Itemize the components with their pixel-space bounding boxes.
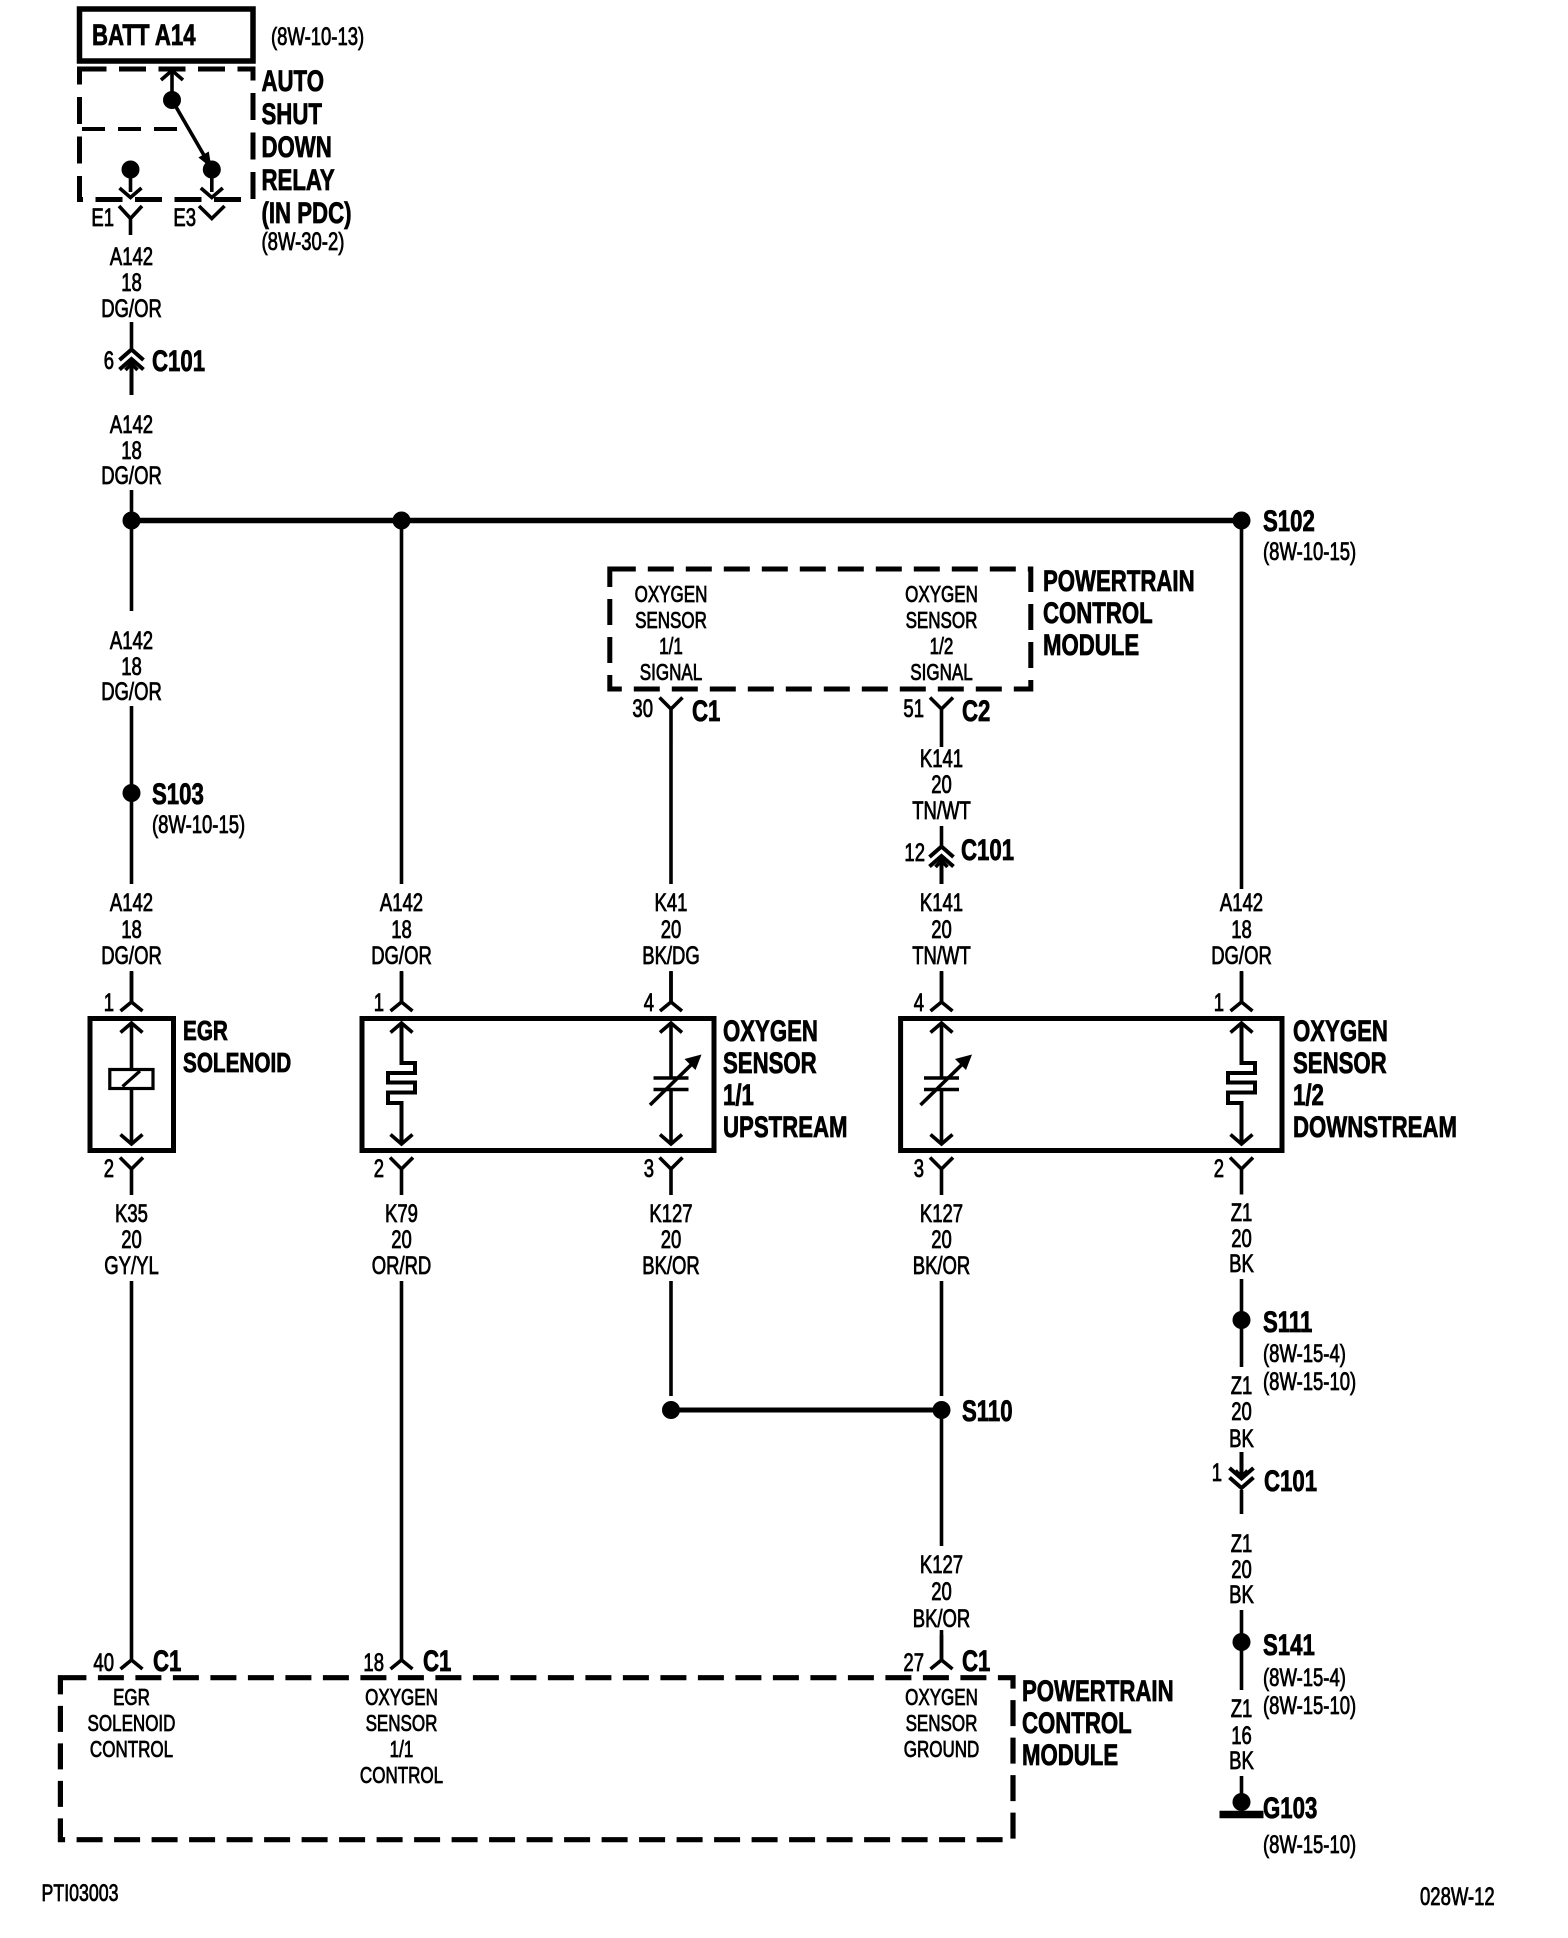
- svg-text:A142: A142: [380, 888, 423, 916]
- svg-text:K127: K127: [920, 1199, 963, 1227]
- connector E3 (female): [199, 206, 225, 219]
- relay E3 lead: [210, 170, 214, 193]
- svg-text:BK/OR: BK/OR: [642, 1251, 700, 1279]
- svg-text:DOWN: DOWN: [262, 130, 332, 164]
- svg-text:1/1: 1/1: [723, 1078, 754, 1112]
- splice S110 tie wire: [671, 1408, 942, 1413]
- svg-text:2: 2: [1214, 1154, 1224, 1182]
- svg-text:40: 40: [93, 1648, 114, 1676]
- svg-text:A142: A142: [110, 888, 153, 916]
- wire Z1 to C101: [1240, 1452, 1244, 1462]
- connector pin 2 EGR solenoid: [120, 1158, 143, 1196]
- svg-text:20: 20: [391, 1225, 412, 1253]
- powertrain control module (upper, dashed box): [610, 569, 1031, 689]
- svg-text:AUTO: AUTO: [262, 64, 324, 98]
- svg-text:(8W-15-10): (8W-15-10): [1263, 1830, 1356, 1858]
- svg-text:1/1: 1/1: [390, 1738, 414, 1763]
- wire to pin 4 O2 sensor 1/1: [669, 971, 673, 1002]
- svg-text:DG/OR: DG/OR: [1211, 941, 1272, 969]
- svg-text:(8W-10-15): (8W-10-15): [1263, 537, 1356, 565]
- wire to pin 1 O2 sensor 1/2: [1240, 971, 1244, 1002]
- relay E1 arrow: [120, 188, 142, 198]
- relay E1 lead: [129, 170, 133, 193]
- svg-text:C101: C101: [1264, 1464, 1317, 1498]
- connector pin 51 C2: [930, 698, 953, 741]
- svg-text:BK/OR: BK/OR: [913, 1251, 971, 1279]
- svg-text:BK/DG: BK/DG: [642, 941, 700, 969]
- svg-text:SENSOR: SENSOR: [723, 1046, 817, 1080]
- svg-text:OXYGEN: OXYGEN: [635, 583, 708, 608]
- svg-text:Z1: Z1: [1231, 1198, 1253, 1226]
- svg-text:51: 51: [903, 694, 924, 722]
- svg-text:(8W-15-4): (8W-15-4): [1263, 1339, 1346, 1367]
- solenoid coil symbol: [110, 1070, 153, 1089]
- svg-text:BK/OR: BK/OR: [913, 1604, 971, 1632]
- svg-text:20: 20: [931, 915, 952, 943]
- svg-text:E3: E3: [173, 203, 196, 231]
- wire A142 to splice bus: [130, 490, 134, 516]
- ground G103 terminal: [1233, 1793, 1251, 1811]
- svg-text:4: 4: [914, 988, 924, 1016]
- svg-text:20: 20: [661, 1225, 682, 1253]
- svg-text:SHUT: SHUT: [262, 97, 322, 131]
- svg-text:K35: K35: [115, 1199, 148, 1227]
- wire to pin 1: [130, 971, 134, 1002]
- svg-text:18: 18: [121, 268, 142, 296]
- connector pin 1 EGR solenoid: [121, 972, 143, 1011]
- svg-text:1/2: 1/2: [930, 635, 954, 660]
- svg-text:DG/OR: DG/OR: [101, 461, 162, 489]
- svg-text:C1: C1: [692, 694, 720, 728]
- svg-text:S141: S141: [1263, 1628, 1315, 1662]
- svg-text:20: 20: [931, 1577, 952, 1605]
- svg-text:A142: A142: [110, 242, 153, 270]
- svg-text:SOLENOID: SOLENOID: [183, 1048, 291, 1079]
- svg-text:C1: C1: [962, 1644, 990, 1678]
- connector E1 (female): [119, 206, 142, 235]
- svg-text:(IN PDC): (IN PDC): [262, 196, 352, 230]
- relay K: auto shut down relay dashed box: [80, 69, 254, 200]
- junction col1: [123, 512, 141, 530]
- svg-text:POWERTRAIN: POWERTRAIN: [1022, 1674, 1174, 1708]
- EGR internal arrow out: [121, 1135, 143, 1145]
- in-line connector C101 pin 1: [1230, 1452, 1254, 1488]
- relay contact E3: [203, 161, 221, 179]
- svg-text:PTI03003: PTI03003: [42, 1881, 119, 1907]
- svg-text:C101: C101: [961, 833, 1014, 867]
- svg-text:S111: S111: [1263, 1305, 1312, 1339]
- O2 1/1 sense arrow out: [660, 1135, 682, 1145]
- relay contact E1: [122, 161, 140, 179]
- svg-text:18: 18: [121, 915, 142, 943]
- svg-text:A142: A142: [1220, 888, 1263, 916]
- wire Z1 to ground: [1240, 1776, 1244, 1797]
- relay coil divider (dashed): [82, 127, 186, 131]
- svg-text:(8W-10-15): (8W-10-15): [152, 810, 245, 838]
- svg-text:S110: S110: [962, 1394, 1013, 1428]
- svg-text:SIGNAL: SIGNAL: [640, 661, 702, 686]
- svg-text:EGR: EGR: [113, 1686, 150, 1711]
- connector pin 1 O2 sensor 1/2: [1231, 972, 1253, 1011]
- fuse feed box BATT A14: [80, 9, 254, 61]
- wire K127 to S110: [669, 1281, 673, 1396]
- wire A142 to S103: [130, 706, 134, 786]
- relay common wire: [170, 71, 174, 101]
- svg-text:1: 1: [104, 988, 114, 1016]
- svg-text:(8W-15-10): (8W-15-10): [1263, 1367, 1356, 1395]
- svg-text:1: 1: [1212, 1458, 1222, 1486]
- oxygen sensor 1/2 box: [901, 1019, 1282, 1151]
- relay movable contact arm: [172, 100, 205, 157]
- junction col2: [393, 512, 411, 530]
- O2 1/1 heater arrow in: [391, 1023, 413, 1033]
- sense element plates O2 1/2: [924, 1023, 959, 1144]
- EGR solenoid box: [90, 1019, 174, 1151]
- bus wire A142 (horizontal): [132, 518, 1242, 524]
- relay pin 30 arrow (to BATT): [161, 71, 183, 81]
- svg-text:K41: K41: [655, 888, 688, 916]
- svg-text:K141: K141: [920, 888, 963, 916]
- svg-text:DG/OR: DG/OR: [371, 941, 432, 969]
- wire A142 below bus: [130, 525, 134, 611]
- wire A142 to C101: [130, 322, 134, 349]
- svg-text:27: 27: [903, 1648, 924, 1676]
- O2 1/2 sense arrow in: [931, 1023, 953, 1033]
- svg-text:K79: K79: [385, 1199, 418, 1227]
- connector pin 3 O2 sensor 1/2: [930, 1158, 953, 1196]
- svg-text:20: 20: [121, 1225, 142, 1253]
- svg-text:20: 20: [1231, 1397, 1252, 1425]
- wire to pin 1 O2 sensor 1/1: [400, 971, 404, 1002]
- wire K41: [669, 740, 673, 884]
- svg-text:C101: C101: [152, 344, 205, 378]
- wire K127 to S110: [940, 1281, 944, 1396]
- svg-text:S103: S103: [152, 777, 204, 811]
- wire K79 to PCM: [400, 1281, 404, 1630]
- splice S102: [1233, 512, 1251, 530]
- svg-text:TN/WT: TN/WT: [912, 941, 971, 969]
- svg-text:12: 12: [904, 838, 925, 866]
- svg-text:UPSTREAM: UPSTREAM: [723, 1110, 848, 1144]
- svg-text:GROUND: GROUND: [904, 1738, 980, 1763]
- svg-text:CONTROL: CONTROL: [1043, 596, 1153, 630]
- svg-text:C2: C2: [962, 694, 990, 728]
- svg-text:3: 3: [914, 1154, 924, 1182]
- relay common contact: [163, 91, 181, 109]
- svg-text:BATT A14: BATT A14: [92, 18, 196, 52]
- svg-text:CONTROL: CONTROL: [1022, 1706, 1132, 1740]
- svg-text:RELAY: RELAY: [262, 163, 336, 197]
- svg-text:Z1: Z1: [1231, 1371, 1253, 1399]
- variable arrow O2 1/2: [921, 1063, 964, 1105]
- svg-text:SENSOR: SENSOR: [1293, 1046, 1387, 1080]
- variable arrow: [650, 1063, 693, 1105]
- wire K141 to C101: [940, 826, 944, 846]
- svg-text:K127: K127: [920, 1550, 963, 1578]
- svg-text:DG/OR: DG/OR: [101, 294, 162, 322]
- O2 1/1 sense arrow in: [660, 1023, 682, 1033]
- svg-text:SIGNAL: SIGNAL: [910, 661, 972, 686]
- svg-text:A142: A142: [110, 626, 153, 654]
- svg-text:CONTROL: CONTROL: [90, 1738, 173, 1763]
- svg-text:1/1: 1/1: [659, 635, 683, 660]
- svg-text:4: 4: [644, 988, 654, 1016]
- svg-text:DG/OR: DG/OR: [101, 677, 162, 705]
- connector pin 4 O2 sensor 1/1: [660, 972, 682, 1011]
- powertrain control module (lower, dashed box): [60, 1678, 1013, 1840]
- connector pin 4 O2 sensor 1/2: [931, 972, 953, 1011]
- EGR internal arrow in: [121, 1023, 143, 1033]
- svg-text:K141: K141: [920, 744, 963, 772]
- wire Z1 to S141: [1240, 1610, 1244, 1636]
- svg-text:A142: A142: [110, 410, 153, 438]
- svg-text:OXYGEN: OXYGEN: [905, 583, 978, 608]
- connector pin 2 O2 sensor 1/2: [1230, 1158, 1253, 1195]
- svg-text:30: 30: [632, 694, 653, 722]
- svg-text:SENSOR: SENSOR: [366, 1712, 438, 1737]
- wire Z1 below S111: [1240, 1327, 1244, 1367]
- svg-text:(8W-10-13): (8W-10-13): [271, 22, 364, 50]
- heater element (resistor) O2 1/2: [1228, 1023, 1255, 1144]
- svg-text:K127: K127: [649, 1199, 692, 1227]
- connector pin 2 O2 sensor 1/1: [390, 1158, 413, 1196]
- svg-text:TN/WT: TN/WT: [912, 796, 971, 824]
- svg-text:S102: S102: [1263, 504, 1315, 538]
- svg-text:2: 2: [104, 1154, 114, 1182]
- sense element plates: [654, 1023, 689, 1144]
- svg-text:3: 3: [644, 1154, 654, 1182]
- connector pin 18 C1: [391, 1630, 413, 1669]
- connector pin 1 O2 sensor 1/1: [391, 972, 413, 1011]
- splice S110: [933, 1401, 951, 1419]
- wire A142 to EGR solenoid: [130, 800, 134, 884]
- svg-text:BK: BK: [1229, 1580, 1254, 1608]
- svg-text:EGR: EGR: [183, 1016, 228, 1047]
- in-line connector C101 pin 12: [930, 847, 954, 885]
- heater element (resistor) O2 1/1: [388, 1023, 415, 1144]
- wire K127 below S110: [940, 1417, 944, 1546]
- wire A142 col5 from S102: [1240, 525, 1244, 889]
- svg-text:18: 18: [1231, 915, 1252, 943]
- svg-text:Z1: Z1: [1231, 1694, 1253, 1722]
- svg-text:18: 18: [391, 915, 412, 943]
- svg-text:2: 2: [374, 1154, 384, 1182]
- svg-text:C1: C1: [423, 1644, 451, 1678]
- wire Z1 below S141: [1240, 1649, 1244, 1690]
- wire Z1 to S111: [1240, 1279, 1244, 1313]
- svg-text:OR/RD: OR/RD: [372, 1251, 432, 1279]
- ground G103 symbol: [1220, 1811, 1264, 1819]
- wire K141 upper: [940, 740, 944, 747]
- wire to pin 4 O2 sensor 1/2: [940, 971, 944, 1002]
- relay E3 arrow: [201, 188, 223, 198]
- svg-text:BK: BK: [1229, 1424, 1254, 1452]
- svg-text:028W-12: 028W-12: [1420, 1882, 1495, 1910]
- connector pin 30 C1: [660, 698, 683, 741]
- svg-text:CONTROL: CONTROL: [360, 1764, 443, 1789]
- svg-text:E1: E1: [91, 203, 114, 231]
- svg-text:MODULE: MODULE: [1022, 1738, 1118, 1772]
- svg-text:SENSOR: SENSOR: [635, 609, 707, 634]
- connector pin 27 C1: [931, 1630, 953, 1669]
- svg-text:OXYGEN: OXYGEN: [905, 1686, 978, 1711]
- connector pin 3 O2 sensor 1/1: [660, 1158, 683, 1196]
- EGR internal wire upper: [130, 1023, 134, 1070]
- wire A142 col2: [400, 525, 404, 884]
- svg-text:(8W-30-2): (8W-30-2): [262, 227, 345, 255]
- splice S111: [1233, 1311, 1251, 1329]
- svg-text:OXYGEN: OXYGEN: [1293, 1014, 1388, 1048]
- svg-text:1/2: 1/2: [1293, 1078, 1324, 1112]
- oxygen sensor 1/1 box: [362, 1019, 714, 1151]
- wire K35 to PCM: [130, 1281, 134, 1630]
- svg-text:SOLENOID: SOLENOID: [88, 1712, 176, 1737]
- svg-text:(8W-15-4): (8W-15-4): [1263, 1663, 1346, 1691]
- svg-text:OXYGEN: OXYGEN: [723, 1014, 818, 1048]
- svg-text:1: 1: [1214, 988, 1224, 1016]
- junction at S110 (left): [662, 1401, 680, 1419]
- svg-text:SENSOR: SENSOR: [906, 1712, 978, 1737]
- O2 1/2 heater arrow out: [1231, 1135, 1253, 1145]
- in-line connector C101 pin 6: [120, 350, 144, 396]
- O2 1/2 heater arrow in: [1231, 1023, 1253, 1033]
- svg-text:POWERTRAIN: POWERTRAIN: [1043, 564, 1195, 598]
- splice S103: [123, 784, 141, 802]
- svg-text:OXYGEN: OXYGEN: [365, 1686, 438, 1711]
- svg-text:G103: G103: [1263, 1791, 1317, 1825]
- svg-text:BK: BK: [1229, 1249, 1254, 1277]
- svg-text:C1: C1: [153, 1644, 181, 1678]
- svg-text:BK: BK: [1229, 1746, 1254, 1774]
- O2 1/1 heater arrow out: [391, 1135, 413, 1145]
- svg-text:20: 20: [931, 770, 952, 798]
- svg-text:18: 18: [363, 1648, 384, 1676]
- svg-text:GY/YL: GY/YL: [104, 1251, 158, 1279]
- svg-text:(8W-15-10): (8W-15-10): [1263, 1691, 1356, 1719]
- svg-text:DOWNSTREAM: DOWNSTREAM: [1293, 1110, 1457, 1144]
- svg-text:20: 20: [661, 915, 682, 943]
- svg-text:SENSOR: SENSOR: [906, 609, 978, 634]
- splice S141: [1233, 1633, 1251, 1651]
- svg-text:Z1: Z1: [1231, 1529, 1253, 1557]
- wire K127 to PCM: [940, 1635, 944, 1660]
- svg-text:6: 6: [104, 346, 114, 374]
- O2 1/2 sense arrow out: [931, 1135, 953, 1145]
- svg-text:DG/OR: DG/OR: [101, 941, 162, 969]
- svg-text:20: 20: [931, 1225, 952, 1253]
- connector pin 40 C1: [121, 1630, 143, 1669]
- EGR internal wire lower: [130, 1089, 134, 1145]
- svg-text:MODULE: MODULE: [1043, 628, 1139, 662]
- svg-text:1: 1: [374, 988, 384, 1016]
